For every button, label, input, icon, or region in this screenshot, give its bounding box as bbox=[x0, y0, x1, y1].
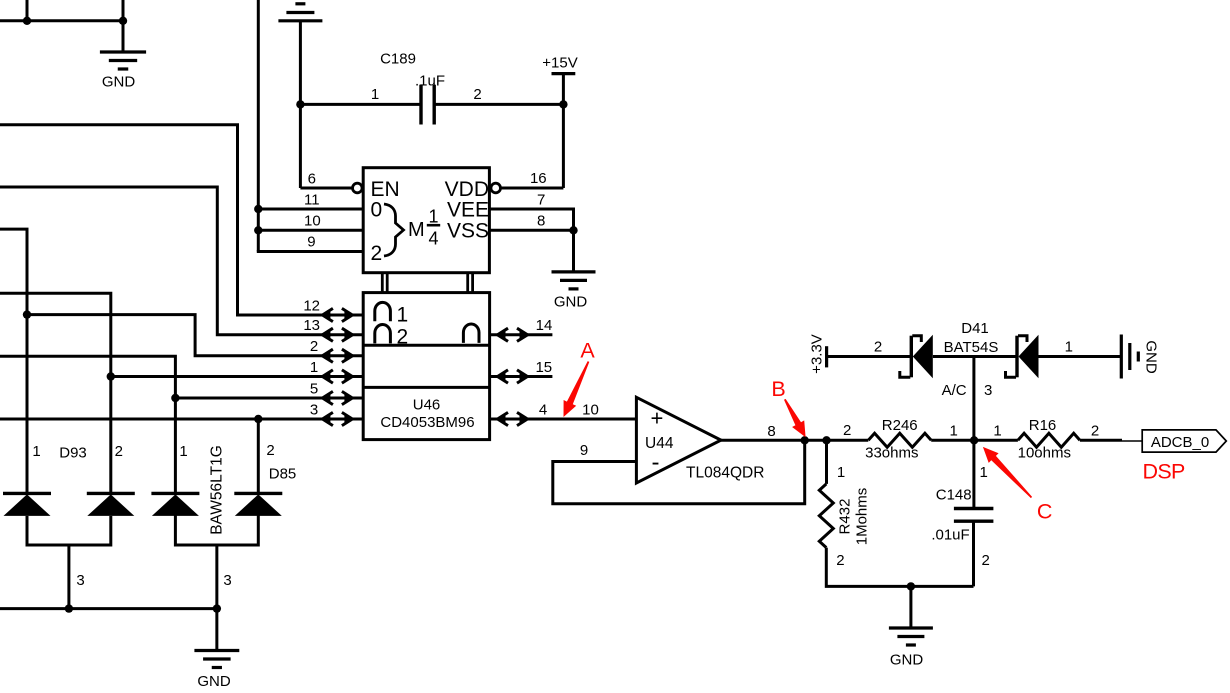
svg-text:M: M bbox=[408, 219, 425, 241]
svg-text:13: 13 bbox=[303, 317, 320, 334]
svg-text:R246: R246 bbox=[882, 417, 918, 434]
svg-text:C189: C189 bbox=[380, 51, 416, 68]
wire D93 common cathode bracket bbox=[27, 516, 111, 545]
svg-text:16: 16 bbox=[530, 170, 547, 187]
ground GND (bottom-left) bbox=[194, 649, 239, 652]
wire D41 pin3 down to node C bbox=[972, 357, 975, 441]
wire control rail vertical bbox=[257, 0, 260, 252]
switch arc common bbox=[463, 324, 479, 343]
svg-text:VSS: VSS bbox=[447, 220, 489, 243]
junction dot D93 pin3 bbox=[65, 604, 73, 612]
svg-text:2: 2 bbox=[371, 242, 383, 265]
svg-text:U46: U46 bbox=[413, 397, 441, 414]
svg-text:BAT54S: BAT54S bbox=[944, 339, 999, 356]
svg-text:12: 12 bbox=[303, 297, 320, 314]
junction dot D85 anode 2 bbox=[254, 415, 262, 423]
wire R16 pin2 to flag bbox=[1080, 439, 1122, 442]
bidirectional arrow pin 2 bbox=[322, 351, 330, 360]
wire net to pin 12 bbox=[0, 125, 363, 315]
wire to ground bbox=[909, 586, 912, 628]
power +3.3V bbox=[825, 346, 828, 367]
wire pin 14 bbox=[490, 333, 553, 336]
mux brace symbol M 1/4 bbox=[384, 204, 404, 256]
bidirectional arrow pin 4 bbox=[498, 414, 506, 423]
svg-text:1: 1 bbox=[397, 304, 409, 327]
annotation arrow C (red) bbox=[983, 447, 1032, 498]
wire branch to pin 1 bbox=[111, 375, 363, 378]
diode D93 element 2 bbox=[87, 492, 135, 495]
svg-text:5: 5 bbox=[310, 380, 318, 397]
diode D85 element 2 bbox=[234, 492, 282, 495]
wire C148 pin 2 bbox=[972, 521, 975, 586]
power +15V bbox=[552, 72, 576, 75]
wire R432 bottom bbox=[826, 548, 973, 587]
svg-text:C148: C148 bbox=[936, 487, 972, 504]
wire D93 pin 3 stub bbox=[67, 545, 70, 609]
block connector tab left bbox=[381, 273, 384, 293]
svg-text:1: 1 bbox=[310, 359, 318, 376]
svg-text:.01uF: .01uF bbox=[931, 527, 969, 544]
svg-text:15: 15 bbox=[535, 359, 552, 376]
svg-text:3: 3 bbox=[984, 382, 992, 399]
wire VSS pin 8 bbox=[489, 229, 573, 232]
resistor R246 33ohms bbox=[868, 433, 931, 447]
junction dot node C bbox=[970, 436, 978, 444]
junction dot bbox=[23, 17, 31, 25]
svg-text:2: 2 bbox=[982, 552, 990, 569]
wire pin 9 bbox=[258, 250, 363, 252]
wire VDD pin 16 bbox=[501, 187, 564, 190]
svg-text:14: 14 bbox=[536, 317, 553, 334]
op-amp U44 TL084QDR bbox=[636, 397, 721, 483]
junction dot branch to pin 5 bbox=[171, 394, 179, 402]
wire net to pin 3 bbox=[0, 418, 363, 421]
svg-text:A/C: A/C bbox=[942, 382, 967, 399]
wire D85 anode 2 vertical bbox=[257, 419, 260, 493]
block connector tab right bbox=[466, 273, 469, 293]
svg-text:D93: D93 bbox=[59, 445, 87, 462]
svg-text:GND: GND bbox=[102, 74, 136, 91]
annotation arrow B (red) bbox=[784, 399, 806, 437]
junction dot bbox=[119, 17, 127, 25]
wire branch to pin 5 bbox=[175, 397, 363, 400]
ground GND (under VSS) bbox=[552, 270, 596, 273]
pin bubble EN bbox=[353, 183, 363, 193]
diode D85 element 1 bbox=[151, 492, 199, 495]
svg-text:1: 1 bbox=[179, 443, 187, 460]
wire top-left horizontal net bbox=[0, 19, 123, 22]
resistor R16 10ohms bbox=[1018, 433, 1080, 447]
bidirectional arrow pin 13 bbox=[322, 330, 330, 339]
ground GND (rotated, right) bbox=[1120, 335, 1123, 379]
svg-text:2: 2 bbox=[310, 338, 318, 355]
wire +15V down to VDD bbox=[562, 74, 565, 188]
svg-text:10: 10 bbox=[582, 401, 599, 418]
svg-text:4: 4 bbox=[539, 401, 547, 418]
wire R432 top bbox=[825, 440, 828, 484]
wire pin 4 to op-amp input 10 bbox=[490, 418, 637, 421]
annotation arrow A (red) bbox=[564, 361, 590, 417]
svg-text:VDD: VDD bbox=[445, 178, 489, 201]
wire pin 6 EN bbox=[300, 187, 352, 190]
svg-text:R16: R16 bbox=[1029, 417, 1057, 434]
net flag ADCB_0 bbox=[1142, 430, 1226, 452]
wire stub up at x=123 bbox=[122, 0, 125, 22]
svg-text:1: 1 bbox=[837, 464, 845, 481]
wire net D93 anode 1 bbox=[0, 229, 27, 493]
wire stub up at x=27 bbox=[26, 0, 29, 21]
wire from inverted ground down to EN rail bbox=[299, 21, 302, 188]
svg-text:2: 2 bbox=[115, 443, 123, 460]
svg-text:U44: U44 bbox=[645, 435, 674, 452]
wire D41 common node bbox=[933, 355, 1017, 358]
wire net D93 anode 2 bbox=[0, 293, 111, 493]
junction dot branch to pin 2 bbox=[23, 310, 31, 318]
switch arc 2 bbox=[375, 325, 391, 344]
svg-text:ADCB_0: ADCB_0 bbox=[1151, 434, 1209, 451]
wire inverting input pin 9 / feedback bbox=[553, 440, 805, 503]
svg-text:11: 11 bbox=[304, 191, 320, 208]
svg-text:6: 6 bbox=[308, 170, 316, 187]
svg-text:2: 2 bbox=[266, 442, 274, 459]
wire D85 common cathode bracket bbox=[175, 516, 258, 546]
svg-text:2: 2 bbox=[473, 86, 481, 103]
svg-text:VEE: VEE bbox=[447, 199, 489, 222]
svg-text:+15V: +15V bbox=[542, 55, 577, 72]
svg-text:.1uF: .1uF bbox=[415, 73, 445, 90]
pin bubble VDD bbox=[491, 183, 501, 193]
junction dot branch to pin 1 bbox=[107, 372, 115, 380]
wire pin 11 bbox=[258, 208, 363, 211]
junction dot D85 pin3 bbox=[213, 604, 221, 612]
svg-text:2: 2 bbox=[397, 326, 409, 349]
wire +3.3V to D41 pin2 bbox=[827, 355, 912, 358]
switch arc 1 bbox=[375, 302, 391, 321]
svg-text:-: - bbox=[652, 449, 660, 476]
svg-text:9: 9 bbox=[307, 234, 315, 251]
svg-text:1: 1 bbox=[428, 206, 438, 226]
wire pin 15 bbox=[490, 375, 553, 378]
junction dot pin 11 bbox=[254, 205, 262, 213]
bidirectional arrow pin 5 bbox=[322, 393, 330, 402]
svg-text:+: + bbox=[651, 406, 664, 431]
svg-text:1: 1 bbox=[950, 423, 958, 440]
wire C189 pin 2 to +15V node bbox=[434, 103, 563, 106]
svg-text:TL084QDR: TL084QDR bbox=[686, 465, 764, 482]
svg-text:2: 2 bbox=[836, 552, 844, 569]
svg-text:D41: D41 bbox=[961, 320, 989, 337]
svg-text:3: 3 bbox=[310, 401, 318, 418]
svg-text:10ohms: 10ohms bbox=[1018, 445, 1071, 462]
svg-text:GND: GND bbox=[554, 294, 588, 311]
ground (inverted, top) bbox=[278, 19, 322, 22]
svg-text:DSP: DSP bbox=[1143, 459, 1185, 483]
svg-text:D85: D85 bbox=[269, 466, 297, 483]
wire C148 pin 1 bbox=[972, 440, 975, 508]
junction dot pin 10 bbox=[254, 226, 262, 234]
divider line bbox=[363, 386, 489, 389]
wire pin 10 bbox=[258, 229, 363, 232]
svg-text:3: 3 bbox=[223, 572, 231, 589]
svg-text:1: 1 bbox=[1065, 339, 1073, 356]
svg-text:1Mohms: 1Mohms bbox=[854, 488, 871, 546]
svg-text:7: 7 bbox=[537, 191, 545, 208]
bidirectional arrow pin 12 bbox=[322, 310, 330, 319]
junction dot +15V node bbox=[559, 100, 567, 108]
svg-text:CD4053BM96: CD4053BM96 bbox=[380, 414, 474, 431]
svg-text:8: 8 bbox=[537, 213, 545, 230]
svg-text:2: 2 bbox=[843, 422, 851, 439]
bidirectional arrow pin 15 bbox=[498, 372, 506, 381]
wire bottom common net bbox=[0, 607, 217, 610]
svg-text:A: A bbox=[580, 338, 595, 362]
resistor R432 1Mohms bbox=[819, 484, 833, 548]
svg-text:R432: R432 bbox=[837, 499, 854, 535]
wire branch to pin 2 bbox=[27, 315, 363, 356]
wire D41 pin1 to ground bbox=[1039, 355, 1122, 358]
ground GND (top-left) bbox=[100, 50, 146, 53]
junction dot VEE/VSS bbox=[569, 226, 577, 234]
wire D85 pin 3 stub bbox=[215, 545, 218, 609]
svg-text:BAW56LT1G: BAW56LT1G bbox=[209, 445, 226, 535]
wire VEE pin 7 bbox=[489, 209, 573, 230]
svg-text:0: 0 bbox=[371, 199, 383, 222]
wire to bottom ground bbox=[215, 609, 218, 651]
wire down to ground bbox=[122, 21, 125, 52]
op U46 switch block CD4053BM96 bbox=[363, 293, 489, 440]
svg-text:3: 3 bbox=[76, 572, 84, 589]
bidirectional arrow pin 14 bbox=[498, 330, 506, 339]
capacitor C148 .01uF bbox=[954, 507, 994, 510]
junction dot feedback bbox=[801, 436, 809, 444]
svg-text:GND: GND bbox=[1143, 340, 1160, 374]
svg-text:4: 4 bbox=[428, 228, 438, 248]
wire net to pin 13 bbox=[0, 187, 363, 335]
svg-text:2: 2 bbox=[874, 339, 882, 356]
junction dot C189 pin1 node bbox=[296, 100, 304, 108]
junction dot bottom ground node bbox=[907, 582, 915, 590]
svg-text:2: 2 bbox=[1091, 423, 1099, 440]
op U46 control block CD4053 (EN/VDD/VEE/VSS) bbox=[363, 168, 489, 273]
wire net D85 anode 1 bbox=[0, 356, 175, 493]
wire node C to R16 bbox=[974, 439, 1018, 442]
junction dot R432 branch bbox=[822, 436, 830, 444]
wire R246 pin1 to node C bbox=[931, 439, 974, 442]
svg-text:+3.3V: +3.3V bbox=[808, 334, 825, 374]
bidirectional arrow pin 1 bbox=[322, 372, 330, 381]
divider line bbox=[363, 344, 489, 347]
wire C189 pin 1 bbox=[300, 103, 421, 106]
wire VSS to ground bbox=[572, 230, 575, 272]
wire thin to flag bbox=[1122, 440, 1142, 442]
diode D41 left (BAT54S) bbox=[910, 336, 913, 378]
svg-text:9: 9 bbox=[580, 442, 588, 459]
svg-text:B: B bbox=[771, 377, 785, 401]
svg-text:1: 1 bbox=[980, 464, 988, 481]
svg-text:GND: GND bbox=[890, 652, 924, 669]
svg-text:GND: GND bbox=[197, 673, 231, 690]
svg-text:8: 8 bbox=[767, 423, 775, 440]
svg-text:10: 10 bbox=[304, 213, 321, 230]
ground GND (bottom-middle) bbox=[889, 626, 933, 629]
svg-text:33ohms: 33ohms bbox=[865, 445, 918, 462]
svg-text:EN: EN bbox=[371, 178, 400, 201]
diode D93 element 1 bbox=[3, 492, 51, 495]
wire op-amp output pin 8 bbox=[721, 439, 868, 442]
svg-text:1: 1 bbox=[32, 443, 40, 460]
bidirectional arrow pin 3 bbox=[322, 414, 330, 423]
diode D41 right (BAT54S) bbox=[1015, 336, 1018, 378]
capacitor C189 .1uF bbox=[419, 85, 422, 125]
svg-text:1: 1 bbox=[993, 423, 1001, 440]
svg-text:1: 1 bbox=[371, 86, 379, 103]
svg-text:C: C bbox=[1037, 500, 1053, 524]
